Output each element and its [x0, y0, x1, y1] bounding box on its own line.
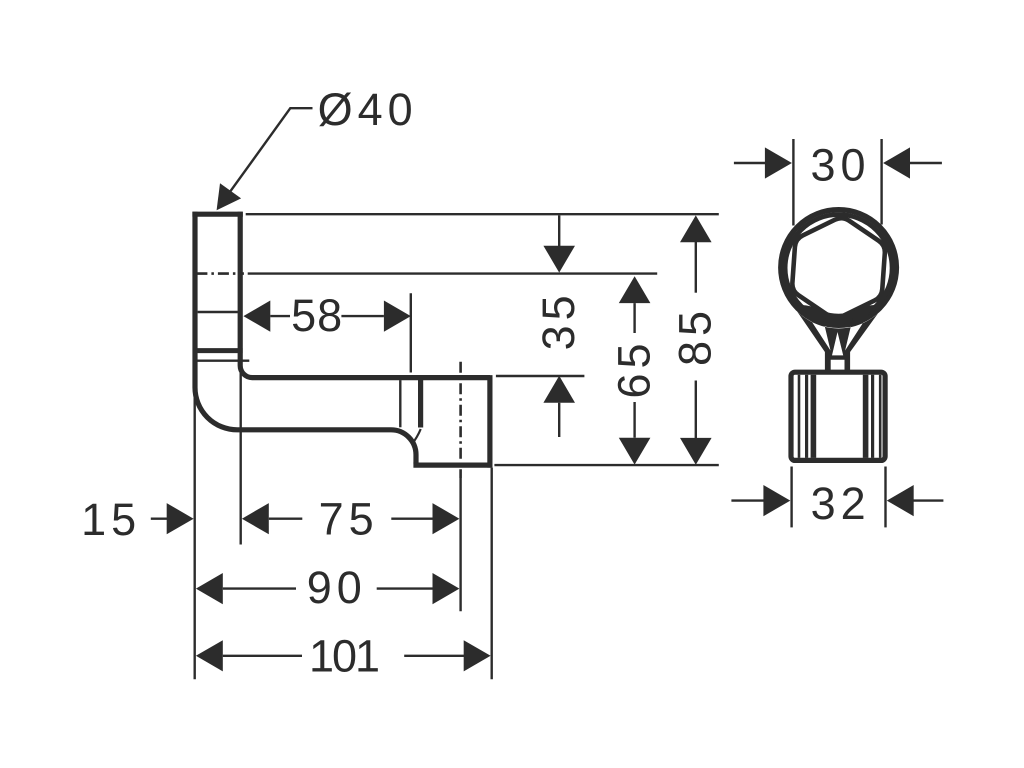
- pipe joint thin line: [399, 380, 401, 427]
- svg-text:75: 75: [319, 493, 379, 544]
- pipe right edge with inner corner and top edge to flange: [240, 212, 490, 378]
- dimension 75: [242, 503, 460, 534]
- pipe centerline dash-dot: [196, 272, 244, 275]
- svg-text:65: 65: [608, 338, 659, 398]
- dimension 35: [543, 215, 575, 437]
- clamp base rib 4: [863, 375, 869, 458]
- svg-text:90: 90: [307, 562, 367, 613]
- node reference line top: [246, 213, 719, 215]
- svg-text:15: 15: [81, 494, 141, 545]
- collar thick line: [193, 348, 243, 353]
- wire: [192, 212, 492, 478]
- svg-text:101: 101: [309, 630, 378, 681]
- dimension 85: [680, 215, 712, 464]
- flange centerline dash-dot: [459, 362, 462, 478]
- pipe left edge with outer corner, bottom edge, fillet to flange: [195, 212, 416, 464]
- clamp ring bottom merge arc: [820, 313, 857, 317]
- dimension 32: [731, 467, 943, 528]
- extension line flange right: [491, 468, 493, 680]
- svg-text:Ø40: Ø40: [318, 84, 418, 135]
- clamp base block: [791, 372, 885, 460]
- clamp base rib 6: [879, 375, 882, 458]
- node reference line flange bottom: [494, 464, 718, 466]
- collar thin line: [198, 311, 238, 313]
- fillet inner thin curve: [412, 429, 421, 445]
- dimension 65: [619, 276, 651, 464]
- clamp base rib 3: [811, 375, 817, 458]
- flange left edge: [418, 378, 423, 428]
- clamp strap and neck filled: [785, 293, 893, 373]
- clamp base rib 2: [805, 375, 808, 458]
- clamp hexagon socket: [792, 218, 884, 317]
- flange bottom edge: [413, 463, 492, 468]
- svg-text:35: 35: [533, 290, 584, 350]
- svg-text:32: 32: [811, 478, 871, 529]
- clamp base rib 5: [871, 375, 874, 458]
- svg-text:58: 58: [291, 290, 343, 341]
- dimension 58: [243, 293, 410, 372]
- dimension 90: [196, 573, 460, 604]
- dimension 101: [196, 640, 491, 671]
- extension line left: [193, 388, 195, 680]
- dimension 15: [151, 503, 194, 534]
- clamp ring inner circle: [785, 215, 892, 322]
- svg-text:30: 30: [810, 140, 870, 191]
- leader line for diameter 40: [217, 108, 313, 210]
- clamp base rib 1: [798, 375, 801, 458]
- node reference line center: [248, 272, 658, 274]
- extension line flange center: [459, 478, 461, 611]
- pipe top edge: [192, 212, 242, 217]
- flange right edge: [487, 375, 492, 468]
- collar lower thin line: [193, 360, 249, 362]
- svg-text:85: 85: [670, 306, 721, 366]
- clamp ring outer circle: [781, 210, 897, 326]
- extension line pipe right: [239, 370, 241, 545]
- dimension 30: [734, 139, 942, 226]
- node reference line flange top: [496, 375, 585, 377]
